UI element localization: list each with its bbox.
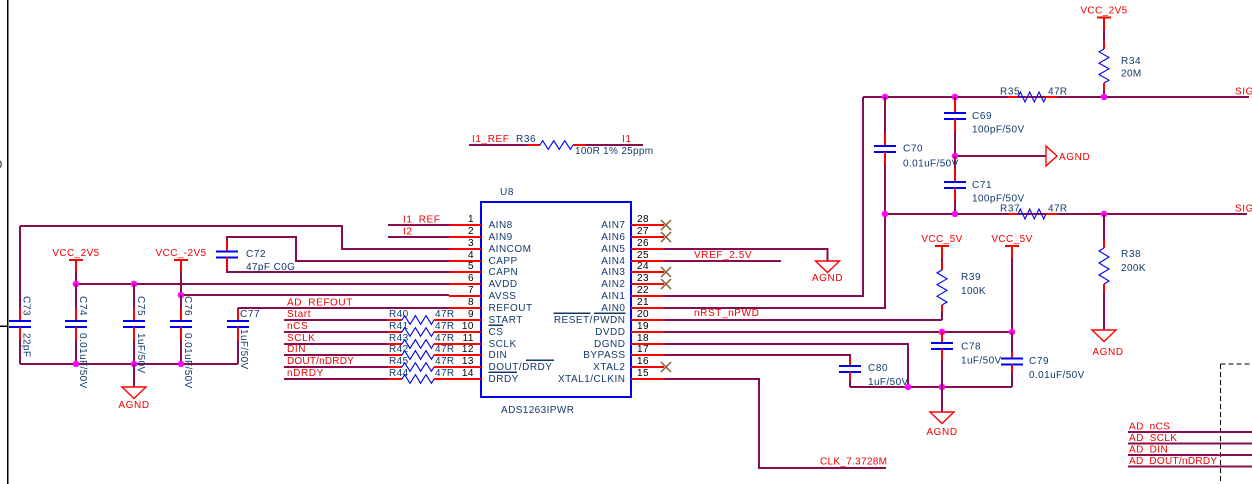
svg-text:C70: C70 <box>903 144 923 155</box>
svg-text:7: 7 <box>468 285 474 296</box>
pin 19 <box>595 321 664 338</box>
pin 14 <box>449 368 519 385</box>
svg-text:27: 27 <box>637 226 649 237</box>
svg-text:17: 17 <box>637 344 649 355</box>
pin 25 <box>601 250 664 267</box>
svg-text:RESET/PWDN: RESET/PWDN <box>554 315 626 326</box>
svg-text:ADS1263IPWR: ADS1263IPWR <box>501 405 574 416</box>
svg-text:DRDY: DRDY <box>489 374 519 385</box>
pin 24 <box>601 261 664 278</box>
svg-text:START: START <box>489 315 523 326</box>
svg-text:AD_SCLK: AD_SCLK <box>1129 433 1177 444</box>
svg-text:0.01uF/50V: 0.01uF/50V <box>903 159 959 170</box>
svg-text:200K: 200K <box>1121 263 1146 274</box>
ground AGND <box>1092 330 1124 358</box>
wire <box>664 97 863 296</box>
node SIG <box>1235 204 1252 215</box>
junction <box>952 153 959 160</box>
svg-text:47R: 47R <box>435 344 455 355</box>
svg-text:22pF: 22pF <box>21 333 32 357</box>
svg-text:AIN5: AIN5 <box>601 244 625 255</box>
junction <box>952 94 959 101</box>
svg-text:SIG: SIG <box>1235 204 1252 215</box>
svg-text:C74: C74 <box>77 296 88 316</box>
power VCC_2V5 <box>1080 6 1127 42</box>
svg-text:C69: C69 <box>972 111 992 122</box>
svg-text:23: 23 <box>637 273 649 284</box>
svg-text:Start: Start <box>287 309 311 320</box>
wire <box>664 355 850 358</box>
svg-text:100K: 100K <box>961 286 986 297</box>
svg-text:0.01uF/50V: 0.01uF/50V <box>1029 370 1085 381</box>
pin 21 <box>601 297 664 314</box>
resistor R35 47R <box>1000 87 1068 103</box>
pin 1 <box>449 214 513 231</box>
node I2 <box>388 227 449 238</box>
pin 22 <box>601 285 664 302</box>
node AD_DOUT/nDRDY <box>1128 456 1252 467</box>
svg-text:0.01uF/50V: 0.01uF/50V <box>182 333 193 389</box>
svg-text:12: 12 <box>462 344 474 355</box>
svg-text:R37: R37 <box>1000 204 1020 215</box>
wire <box>0 325 8 327</box>
svg-text:AGND: AGND <box>118 400 149 411</box>
junction <box>882 94 889 101</box>
svg-text:R44: R44 <box>389 368 409 379</box>
svg-text:1uF/50V: 1uF/50V <box>238 329 249 370</box>
svg-text:AD_REFOUT: AD_REFOUT <box>287 298 353 309</box>
svg-text:I2: I2 <box>403 227 413 238</box>
resistor R39 100K <box>937 262 986 320</box>
svg-text:CAPN: CAPN <box>489 267 519 278</box>
svg-text:REFOUT: REFOUT <box>489 303 533 314</box>
svg-text:AVSS: AVSS <box>489 291 517 302</box>
svg-text:20M: 20M <box>1121 69 1142 80</box>
junction <box>1101 94 1108 101</box>
svg-text:VCC_5V: VCC_5V <box>991 234 1032 245</box>
svg-text:AGND: AGND <box>812 273 843 284</box>
ground AGND <box>955 146 1090 166</box>
pin 10 <box>449 321 503 338</box>
svg-text:C76: C76 <box>182 296 193 316</box>
node nRST_nPWD <box>664 308 942 320</box>
svg-text:16: 16 <box>637 356 649 367</box>
svg-text:VCC_5V: VCC_5V <box>921 234 962 245</box>
wire <box>664 344 908 387</box>
svg-text:3: 3 <box>468 238 474 249</box>
power VCC_-2V5 <box>156 248 207 295</box>
ground AGND <box>926 387 957 438</box>
svg-text:47R: 47R <box>435 321 455 332</box>
node VREF_2.5V <box>664 250 781 261</box>
svg-text:CAPP: CAPP <box>489 256 518 267</box>
svg-text:4: 4 <box>468 250 474 261</box>
svg-text:SCLK: SCLK <box>287 333 316 344</box>
resistor R43 47R net SCLK <box>284 333 455 348</box>
svg-text:0.01uF/50V: 0.01uF/50V <box>77 333 88 389</box>
svg-text:20: 20 <box>637 309 649 320</box>
svg-text:C80: C80 <box>868 363 888 374</box>
svg-text:C78: C78 <box>961 342 981 353</box>
resistor R37 47R <box>1000 204 1068 220</box>
svg-text:5: 5 <box>468 261 474 272</box>
wire <box>181 294 449 296</box>
svg-text:I1: I1 <box>622 134 632 145</box>
junction <box>178 361 185 368</box>
svg-text:I1_REF: I1_REF <box>403 215 441 226</box>
junction <box>1009 329 1016 336</box>
power VCC_2V5 <box>52 248 99 284</box>
node AD_nCS <box>1128 422 1252 433</box>
svg-text:C72: C72 <box>246 249 266 260</box>
resistor R40 47R net Start <box>284 309 455 324</box>
svg-text:R34: R34 <box>1121 56 1141 67</box>
pin 5 <box>449 261 518 278</box>
svg-text:11: 11 <box>463 333 474 344</box>
svg-text:C71: C71 <box>972 180 992 191</box>
capacitor C78 <box>931 332 1002 387</box>
pin 9 <box>449 309 523 326</box>
svg-text:9: 9 <box>468 309 474 320</box>
svg-text:47R: 47R <box>1048 87 1068 98</box>
svg-text:DGND: DGND <box>594 339 625 350</box>
svg-text:R39: R39 <box>961 272 981 283</box>
junction <box>73 361 80 368</box>
pin 13 <box>449 356 552 373</box>
pin RESET/PWDN overbar <box>554 312 626 314</box>
svg-text:AIN1: AIN1 <box>601 291 625 302</box>
junction <box>905 384 912 391</box>
no-connect X <box>661 220 671 230</box>
svg-text:15: 15 <box>637 368 649 379</box>
wire <box>76 283 449 285</box>
power VCC_5V <box>991 234 1032 332</box>
svg-text:DVDD: DVDD <box>595 327 625 338</box>
svg-text:28: 28 <box>637 214 649 225</box>
svg-text:1uF/50V: 1uF/50V <box>135 333 146 374</box>
svg-text:47R: 47R <box>1048 204 1068 215</box>
capacitor C80 <box>839 358 909 388</box>
pin 27 <box>601 226 664 243</box>
svg-text:R36: R36 <box>516 134 536 145</box>
svg-text:AD_DIN: AD_DIN <box>1129 445 1168 456</box>
svg-text:DIN: DIN <box>489 350 508 361</box>
svg-text:14: 14 <box>462 368 474 379</box>
svg-text:C75: C75 <box>135 296 146 316</box>
junction <box>952 211 959 218</box>
svg-text:R45: R45 <box>389 356 409 367</box>
no-connect X <box>661 362 671 372</box>
wire <box>20 363 238 365</box>
capacitor C79 <box>1001 332 1085 387</box>
svg-text:CS: CS <box>489 327 504 338</box>
svg-text:R41: R41 <box>389 321 409 332</box>
svg-text:SCLK: SCLK <box>489 339 517 350</box>
pin 6 <box>449 273 518 290</box>
junction <box>1101 211 1108 218</box>
wire <box>885 213 1247 215</box>
svg-text:DOUT/nDRDY: DOUT/nDRDY <box>287 356 354 367</box>
svg-text:AD_DOUT/nDRDY: AD_DOUT/nDRDY <box>1129 456 1217 467</box>
dashed box <box>1221 364 1252 484</box>
resistor R36 <box>469 134 653 157</box>
svg-text:AGND: AGND <box>926 427 957 438</box>
wire <box>863 96 1249 98</box>
junction <box>882 211 889 218</box>
node CLK_7.3728M <box>664 379 887 468</box>
svg-text:U8: U8 <box>500 187 514 198</box>
svg-text:VREF_2.5V: VREF_2.5V <box>694 250 752 261</box>
svg-text:AD_nCS: AD_nCS <box>1129 422 1170 433</box>
svg-text:C73: C73 <box>21 296 32 316</box>
svg-text:10: 10 <box>462 321 474 332</box>
pin 12 <box>449 344 507 361</box>
resistor R45 47R net DOUT/nDRDY <box>284 356 455 371</box>
capacitor C73 <box>9 226 32 364</box>
no-connect X <box>661 279 671 289</box>
svg-text:nDRDY: nDRDY <box>287 368 324 379</box>
ground AGND <box>118 364 149 411</box>
svg-text:DIN: DIN <box>287 344 306 355</box>
wire <box>7 0 9 484</box>
svg-text:C77: C77 <box>240 309 260 320</box>
node AD_SCLK <box>1128 433 1252 444</box>
pin 18 <box>594 333 664 350</box>
svg-text:1uF/50V: 1uF/50V <box>961 356 1002 367</box>
node I1_REF <box>388 215 449 226</box>
svg-text:AIN7: AIN7 <box>601 220 625 231</box>
svg-text:SIG: SIG <box>1235 87 1252 98</box>
svg-text:VCC_2V5: VCC_2V5 <box>1080 6 1127 17</box>
svg-text:DOUT/DRDY: DOUT/DRDY <box>489 362 553 373</box>
resistor R34 20M <box>1099 41 1142 97</box>
svg-text:VCC_2V5: VCC_2V5 <box>52 248 99 259</box>
pin 16 <box>593 356 664 373</box>
svg-text:0: 0 <box>0 159 3 171</box>
svg-text:13: 13 <box>462 356 474 367</box>
svg-text:AIN2: AIN2 <box>601 279 625 290</box>
svg-text:24: 24 <box>637 261 649 272</box>
pin 4 <box>449 250 518 267</box>
svg-text:1: 1 <box>468 214 474 225</box>
wire <box>20 226 449 249</box>
capacitor C69 <box>944 97 1025 156</box>
svg-text:21: 21 <box>637 297 649 308</box>
capacitor C77 <box>227 308 260 370</box>
svg-text:R42: R42 <box>389 344 409 355</box>
svg-text:47R: 47R <box>435 368 455 379</box>
svg-text:47pF C0G: 47pF C0G <box>246 262 295 273</box>
capacitor C75 <box>123 284 146 374</box>
pin 23 <box>601 273 664 290</box>
node 0 <box>0 159 3 171</box>
svg-text:18: 18 <box>637 333 649 344</box>
svg-text:100pF/50V: 100pF/50V <box>972 125 1025 136</box>
IC U8 ADS1263IPWR <box>481 187 631 416</box>
svg-text:R35: R35 <box>1000 87 1020 98</box>
power VCC_5V <box>921 234 962 262</box>
svg-text:XTAL1/CLKIN: XTAL1/CLKIN <box>558 374 626 385</box>
capacitor C74 <box>65 284 88 389</box>
svg-text:47R: 47R <box>435 309 455 320</box>
pin 20 <box>554 309 664 326</box>
svg-text:nCS: nCS <box>287 321 308 332</box>
svg-text:47R: 47R <box>435 356 455 367</box>
svg-text:I1_REF: I1_REF <box>472 134 510 145</box>
capacitor C70 <box>874 97 959 214</box>
pin DRDY overbar <box>489 371 518 373</box>
svg-text:nRST_nPWD: nRST_nPWD <box>694 308 759 319</box>
junction <box>73 281 80 288</box>
wire <box>850 386 1012 388</box>
svg-text:47R: 47R <box>435 333 455 344</box>
svg-text:AVDD: AVDD <box>489 279 518 290</box>
wire <box>664 214 885 308</box>
pin 26 <box>601 238 664 255</box>
pin 8 <box>449 297 533 314</box>
ground AGND <box>664 249 843 284</box>
junction <box>131 281 138 288</box>
pin 15 <box>558 368 664 385</box>
svg-text:26: 26 <box>637 238 649 249</box>
svg-text:C79: C79 <box>1029 356 1049 367</box>
svg-text:25: 25 <box>637 250 649 261</box>
svg-text:R43: R43 <box>389 333 409 344</box>
pin 7 <box>449 285 516 302</box>
svg-text:6: 6 <box>468 273 474 284</box>
no-connect X <box>661 232 671 242</box>
svg-text:2: 2 <box>468 226 474 237</box>
junction <box>939 329 946 336</box>
node AD_DIN <box>1128 445 1252 456</box>
svg-text:XTAL2: XTAL2 <box>593 362 625 373</box>
node AD_REFOUT <box>238 298 449 309</box>
resistor R41 47R net nCS <box>284 321 455 336</box>
resistor R44 47R net nDRDY <box>284 368 455 383</box>
pin DOUT/DRDY overbar <box>526 359 554 361</box>
svg-text:19: 19 <box>637 321 649 332</box>
svg-text:R38: R38 <box>1121 249 1141 260</box>
svg-text:AGND: AGND <box>1092 347 1123 358</box>
junction <box>178 292 185 299</box>
capacitor C72 <box>216 237 449 273</box>
junction <box>939 384 946 391</box>
svg-text:100R 1% 25ppm: 100R 1% 25ppm <box>575 146 653 157</box>
svg-text:AIN6: AIN6 <box>601 232 625 243</box>
svg-text:VCC_-2V5: VCC_-2V5 <box>156 248 207 259</box>
pin 11 <box>449 333 517 350</box>
svg-text:AINCOM: AINCOM <box>489 244 532 255</box>
pin 2 <box>449 226 513 243</box>
svg-text:AIN8: AIN8 <box>489 220 513 231</box>
pin 3 <box>449 238 532 255</box>
wire <box>664 331 1012 333</box>
resistor R42 47R net DIN <box>284 344 455 359</box>
pin 28 <box>601 214 664 231</box>
capacitor C76 <box>170 295 193 389</box>
svg-text:AIN3: AIN3 <box>601 267 625 278</box>
svg-text:CLK_7.3728M: CLK_7.3728M <box>820 457 887 468</box>
svg-text:AIN0: AIN0 <box>601 303 625 314</box>
pin 17 <box>583 344 664 361</box>
svg-text:22: 22 <box>637 285 649 296</box>
svg-text:BYPASS: BYPASS <box>583 350 625 361</box>
resistor R38 200K <box>1099 214 1146 330</box>
svg-text:AIN4: AIN4 <box>601 256 625 267</box>
svg-text:8: 8 <box>468 297 474 308</box>
capacitor C71 <box>944 156 1025 214</box>
svg-text:AIN9: AIN9 <box>489 232 513 243</box>
no-connect X <box>661 267 671 277</box>
pin CS overbar <box>489 324 504 326</box>
node SIG <box>1235 87 1252 98</box>
junction <box>131 361 138 368</box>
svg-text:AGND: AGND <box>1059 152 1090 163</box>
svg-text:R40: R40 <box>389 309 409 320</box>
